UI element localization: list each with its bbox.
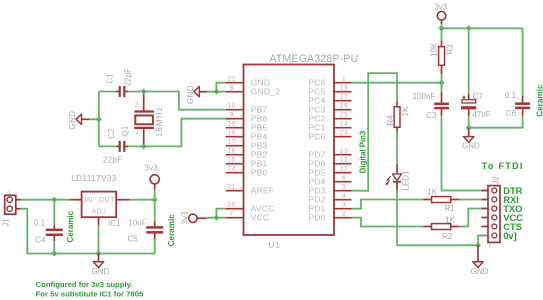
- U1 pin 27 (PC4): [308, 94, 351, 106]
- svg-text:VCC: VCC: [251, 213, 269, 223]
- U1 pin 20 (AVCC): [226, 202, 275, 214]
- node junction crystal top: [141, 89, 147, 95]
- svg-text:U1: U1: [269, 240, 281, 250]
- svg-text:6: 6: [489, 244, 492, 250]
- node junction 3v3 avcc/vcc: [213, 215, 219, 221]
- svg-text:5: 5: [342, 184, 346, 191]
- node junction C7 top: [466, 25, 472, 31]
- svg-text:GND: GND: [68, 110, 77, 129]
- svg-text:IC1: IC1: [108, 219, 121, 228]
- U1 pin 23 (PC0): [308, 130, 351, 142]
- capacitor C2 22pF: [103, 128, 128, 165]
- node junction reset net: [439, 80, 445, 86]
- U1 pin 25 (PC2): [308, 112, 351, 124]
- svg-text:OUT: OUT: [99, 197, 116, 204]
- svg-text:3v3: 3v3: [434, 3, 447, 12]
- svg-text:C1: C1: [106, 73, 115, 84]
- U1 pin 16 (PB2): [226, 148, 268, 160]
- svg-text:2: 2: [135, 102, 139, 109]
- node junction crystal gnd: [96, 116, 102, 122]
- svg-text:28: 28: [340, 85, 349, 92]
- U1 pin 22 (GND): [226, 76, 271, 88]
- svg-text:PC0: PC0: [308, 132, 325, 142]
- svg-text:C6: C6: [506, 109, 517, 118]
- supply 3v3 (top right): [434, 3, 447, 25]
- svg-text:LED1: LED1: [401, 170, 410, 191]
- svg-text:16: 16: [227, 148, 236, 155]
- capacitor C4 0.1: [34, 200, 75, 254]
- svg-text:Q1: Q1: [121, 125, 130, 136]
- wire OUT to 3v3/C5: [130, 199, 155, 201]
- svg-text:9: 9: [230, 112, 234, 119]
- svg-text:ADJ: ADJ: [92, 208, 107, 215]
- U1 pin 13 (PD7): [308, 148, 351, 160]
- wire crystal top (XTAL1 net to C1): [99, 91, 117, 93]
- U1 pin 5 (PD3): [308, 184, 351, 196]
- ground GND (U1 pins 22/8): [186, 85, 207, 104]
- svg-text:For 5v substitute IC1 for 7805: For 5v substitute IC1 for 7805: [36, 289, 144, 298]
- svg-text:1K: 1K: [401, 106, 410, 116]
- svg-text:ATMEGA328P-PU: ATMEGA328P-PU: [270, 53, 359, 65]
- wire pin8 to gnd junction: [207, 91, 225, 93]
- wire R4 to LED1: [396, 132, 398, 165]
- U1 pin 14 (PB0): [226, 166, 268, 178]
- svg-text:18: 18: [227, 130, 236, 137]
- capacitor C6 0.1: [469, 28, 543, 127]
- svg-text:10uF: 10uF: [128, 218, 146, 227]
- ground GND (C7/C6): [462, 128, 480, 151]
- svg-text:1: 1: [8, 190, 11, 196]
- svg-text:R1: R1: [444, 204, 455, 213]
- wire R2 to TXO: [459, 209, 488, 227]
- svg-text:GND: GND: [471, 267, 489, 276]
- node junction OUT 3v3: [152, 197, 158, 203]
- wire 0v to gnd: [478, 236, 488, 246]
- svg-text:C2: C2: [107, 128, 116, 139]
- wire 3v3 rail to C6: [442, 27, 523, 29]
- LED LED1: [385, 164, 410, 191]
- svg-text:Ceramic: Ceramic: [66, 210, 75, 242]
- svg-text:0v]: 0v]: [503, 230, 517, 241]
- node junction 3v3: [439, 25, 445, 31]
- svg-text:13: 13: [340, 148, 349, 155]
- svg-text:0.1: 0.1: [505, 91, 517, 100]
- svg-text:3v3: 3v3: [181, 211, 190, 224]
- svg-text:22pF: 22pF: [103, 156, 122, 165]
- node junction C7 gnd: [466, 125, 472, 131]
- wire C3 to DTR: [442, 116, 488, 191]
- wire J1 pin1 to IN: [21, 199, 71, 201]
- svg-text:1: 1: [135, 128, 139, 135]
- svg-text:C5: C5: [128, 235, 139, 244]
- svg-text:26: 26: [340, 103, 349, 110]
- svg-text:14: 14: [227, 166, 236, 173]
- wire pin22 to gnd junction: [216, 83, 225, 92]
- U1 pin 18 (PB4): [226, 130, 268, 142]
- svg-text:C3: C3: [426, 111, 437, 120]
- ground GND (FTDI): [471, 245, 489, 276]
- node junction crystal bottom: [141, 143, 147, 149]
- U1 pin 15 (PB1): [226, 157, 268, 169]
- wire C1 to PB7 pin 10: [128, 92, 225, 110]
- svg-text:GND: GND: [92, 267, 110, 276]
- wire LED1 to gnd: [397, 190, 478, 245]
- svg-text:6: 6: [342, 175, 346, 182]
- svg-text:4: 4: [342, 193, 346, 200]
- wire gnd rail: [54, 253, 154, 255]
- crystal Q1 16MHz: [121, 92, 165, 147]
- svg-text:17: 17: [227, 139, 236, 146]
- svg-text:Ceramic: Ceramic: [167, 214, 176, 247]
- svg-text:2: 2: [342, 211, 346, 218]
- capacitor C1 22pF: [106, 68, 133, 97]
- wire 3v3 to AVCC pin20: [216, 209, 225, 218]
- svg-text:7: 7: [230, 211, 234, 218]
- svg-text:PD0: PD0: [308, 213, 325, 223]
- svg-text:25: 25: [340, 112, 349, 119]
- svg-text:15: 15: [227, 157, 236, 164]
- svg-text:47uF: 47uF: [472, 110, 490, 119]
- svg-text:R4: R4: [386, 115, 395, 126]
- svg-text:C7: C7: [473, 92, 484, 101]
- wire ADJ to gnd rail: [98, 225, 100, 254]
- svg-text:GND: GND: [186, 85, 195, 104]
- resistor R3 10K: [430, 41, 455, 75]
- node junction C4 top: [51, 197, 57, 203]
- svg-text:12: 12: [340, 157, 349, 164]
- svg-text:PB0: PB0: [251, 168, 268, 178]
- U1 pin 24 (PC1): [308, 121, 351, 133]
- svg-text:24: 24: [340, 121, 349, 128]
- svg-text:GND: GND: [462, 141, 480, 150]
- U1 pin 11 (PD5): [308, 166, 351, 178]
- U1 pin 12 (PD6): [308, 157, 351, 169]
- supply 3v3 (AVCC/VCC): [181, 211, 207, 224]
- svg-text:Digital Pin3: Digital Pin3: [359, 130, 368, 173]
- wire 3v3 to VCC pin7: [207, 217, 226, 219]
- svg-text:AREF: AREF: [251, 186, 274, 196]
- wire C2 to PB6 pin 9: [128, 119, 225, 147]
- svg-text:0.1: 0.1: [34, 218, 46, 227]
- wire 3v3 down to R3: [441, 24, 443, 40]
- svg-text:LD1117V33: LD1117V33: [71, 174, 117, 183]
- svg-text:16MHz: 16MHz: [155, 106, 164, 137]
- node junction C4 rail: [51, 251, 57, 257]
- U1 pin 6 (PD4): [308, 175, 351, 187]
- svg-text:GND_2: GND_2: [251, 87, 280, 97]
- svg-text:11: 11: [340, 166, 348, 173]
- svg-text:3v3: 3v3: [145, 163, 158, 172]
- node junction gnd ftdi: [475, 242, 481, 248]
- svg-text:22pF: 22pF: [123, 68, 132, 86]
- svg-text:20: 20: [227, 202, 236, 209]
- svg-text:1K: 1K: [445, 215, 455, 224]
- svg-text:J1: J1: [2, 218, 11, 227]
- svg-text:R3: R3: [445, 44, 454, 55]
- svg-text:1: 1: [342, 76, 346, 83]
- resistor R4 1K: [386, 102, 410, 132]
- svg-text:22: 22: [227, 76, 236, 83]
- wire PD3 pin5 digital pin3 net: [352, 73, 398, 191]
- capacitor C3 100nF: [413, 83, 449, 120]
- svg-text:Configured for 3v3 supply.: Configured for 3v3 supply.: [36, 280, 133, 289]
- ground GND (regulator): [92, 254, 110, 277]
- svg-text:C4: C4: [35, 235, 46, 244]
- svg-text:27: 27: [340, 94, 349, 101]
- svg-text:Ceramic: Ceramic: [536, 84, 543, 117]
- svg-text:10K: 10K: [430, 42, 439, 57]
- U1 pin 3 (PD1): [308, 202, 351, 214]
- ground GND (crystal): [68, 110, 89, 129]
- U1 pin 28 (PC5): [308, 85, 351, 97]
- wire R3 to PC6 pin1: [352, 74, 442, 83]
- svg-text:1K: 1K: [427, 187, 437, 196]
- U1 pin 4 (PD2): [308, 193, 351, 205]
- capacitor C7 47uF polarized: [461, 28, 491, 127]
- wire crystal bottom (to C2): [99, 145, 117, 147]
- wire R1 to RXI: [459, 199, 488, 201]
- svg-text:23: 23: [340, 130, 349, 137]
- node junction ADJ rail: [96, 251, 102, 257]
- U1 pin 7 (VCC): [226, 211, 270, 223]
- U1 pin 2 (PD0): [308, 211, 351, 223]
- voltage regulator IC1 LD1117V33: [70, 174, 130, 228]
- svg-text:IN: IN: [85, 197, 93, 204]
- U1 pin 8 (GND_2): [226, 85, 280, 97]
- svg-text:R2: R2: [442, 232, 453, 241]
- capacitor C5 10uF: [128, 200, 177, 254]
- svg-text:3: 3: [342, 202, 346, 209]
- wire crystal left vertical: [98, 92, 100, 147]
- svg-text:10: 10: [227, 103, 236, 110]
- wire PD1 pin3 to R1: [352, 200, 424, 209]
- svg-text:J2: J2: [491, 176, 500, 185]
- U1 pin 26 (PC3): [308, 103, 351, 115]
- connector J1: [2, 190, 21, 227]
- U1 pin 9 (PB6): [226, 112, 268, 124]
- wire PD0 pin2 to R2: [352, 218, 424, 227]
- wire J1 pin2 down to gnd rail: [21, 209, 55, 254]
- IC U1 ATMEGA328P-PU microcontroller: [244, 53, 359, 250]
- U1 pin 19 (PB5): [226, 121, 268, 133]
- U1 pin 10 (PB7): [226, 103, 268, 115]
- U1 pin 21 (AREF): [226, 184, 275, 196]
- node junction gnd pins: [213, 89, 219, 95]
- svg-text:21: 21: [227, 184, 236, 191]
- wire junction to GND arrow: [89, 118, 99, 120]
- svg-text:19: 19: [227, 121, 236, 128]
- U1 pin 1 (PC6): [308, 76, 351, 88]
- resistor R2 1K: [423, 215, 459, 241]
- svg-text:8: 8: [230, 85, 234, 92]
- supply 3v3 (regulator output): [145, 163, 160, 199]
- svg-text:To FTDI: To FTDI: [482, 161, 524, 171]
- connector J2 FTDI: [482, 176, 501, 243]
- resistor R1 1K: [423, 187, 459, 213]
- svg-text:100nF: 100nF: [413, 92, 436, 101]
- U1 pin 17 (PB3): [226, 139, 268, 151]
